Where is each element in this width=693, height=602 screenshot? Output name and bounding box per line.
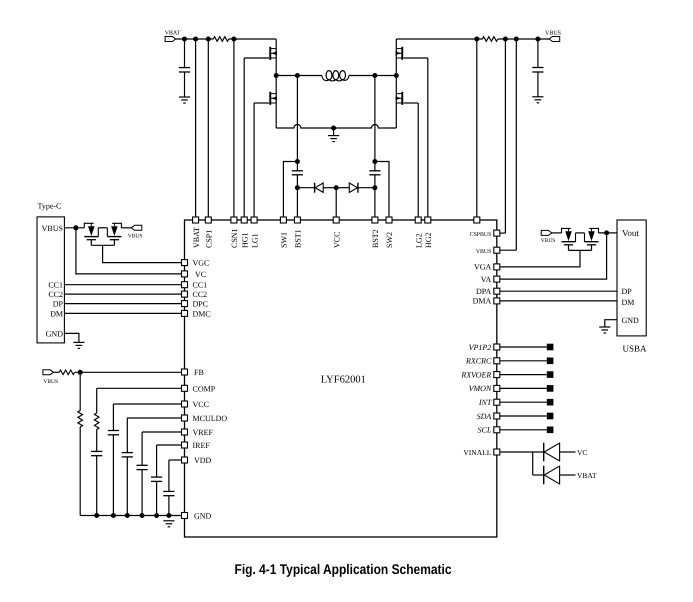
svg-text:VMON: VMON: [469, 384, 492, 393]
svg-text:RXVOER: RXVOER: [460, 370, 491, 379]
svg-text:HG2: HG2: [424, 232, 433, 248]
svg-text:VBAT: VBAT: [165, 31, 181, 37]
svg-text:Fig. 4-1 Typical Application S: Fig. 4-1 Typical Application Schematic: [235, 561, 452, 577]
svg-text:CC2: CC2: [48, 290, 63, 299]
svg-text:VGC: VGC: [193, 259, 210, 268]
svg-text:CSPBUS: CSPBUS: [470, 232, 492, 238]
svg-text:DMC: DMC: [193, 309, 211, 318]
svg-text:VBUS: VBUS: [42, 224, 63, 233]
svg-text:BST2: BST2: [371, 229, 380, 248]
svg-text:VC: VC: [577, 448, 587, 457]
svg-text:VBAT: VBAT: [577, 471, 597, 480]
svg-text:FB: FB: [194, 368, 204, 377]
svg-text:SCL: SCL: [478, 426, 492, 435]
svg-text:LG1: LG1: [250, 233, 259, 248]
svg-text:VCC: VCC: [193, 400, 209, 409]
svg-text:DM: DM: [622, 298, 635, 307]
svg-text:SDA: SDA: [477, 412, 492, 421]
svg-text:COMP: COMP: [193, 384, 216, 393]
svg-text:VBAT: VBAT: [192, 227, 201, 248]
svg-text:VINALL: VINALL: [463, 448, 491, 457]
svg-text:Vout: Vout: [622, 228, 639, 238]
svg-text:CC1: CC1: [193, 281, 208, 290]
svg-text:IREF: IREF: [193, 441, 211, 450]
svg-text:LYF62001: LYF62001: [321, 375, 366, 386]
svg-text:CSP1: CSP1: [205, 230, 214, 248]
svg-text:DP: DP: [53, 300, 64, 309]
svg-text:VGA: VGA: [474, 263, 492, 272]
svg-text:VBUS: VBUS: [128, 234, 143, 240]
svg-text:VP1P2: VP1P2: [469, 343, 492, 352]
svg-text:VDD: VDD: [194, 456, 212, 465]
svg-text:VC: VC: [195, 270, 206, 279]
svg-text:MCULDO: MCULDO: [193, 414, 228, 423]
svg-text:VA: VA: [481, 275, 492, 284]
svg-text:INT: INT: [478, 398, 492, 407]
svg-text:USBA: USBA: [623, 344, 648, 354]
svg-text:LG2: LG2: [414, 233, 423, 248]
svg-text:DP: DP: [622, 287, 633, 296]
svg-text:RXCRC: RXCRC: [465, 357, 492, 366]
svg-text:HG1: HG1: [240, 232, 249, 248]
svg-text:SW2: SW2: [385, 232, 394, 248]
svg-text:CC1: CC1: [48, 281, 63, 290]
svg-text:CSN1: CSN1: [230, 228, 239, 248]
svg-text:VBUS: VBUS: [43, 379, 58, 385]
svg-text:VCC: VCC: [332, 232, 341, 248]
svg-text:BST1: BST1: [294, 229, 303, 248]
svg-text:DPC: DPC: [193, 300, 209, 309]
svg-text:GND: GND: [194, 512, 212, 521]
svg-text:DMA: DMA: [473, 297, 492, 306]
svg-text:VBUS: VBUS: [541, 238, 556, 244]
svg-text:VBUS: VBUS: [545, 31, 561, 37]
svg-text:SW1: SW1: [280, 232, 289, 248]
svg-text:VBUS: VBUS: [476, 249, 491, 255]
svg-text:CC2: CC2: [193, 290, 208, 299]
svg-text:VREF: VREF: [193, 428, 214, 437]
svg-text:DPA: DPA: [476, 287, 491, 296]
svg-text:Type-C: Type-C: [38, 202, 62, 211]
svg-text:GND: GND: [622, 316, 640, 325]
svg-text:GND: GND: [46, 329, 64, 338]
svg-text:DM: DM: [50, 309, 63, 318]
